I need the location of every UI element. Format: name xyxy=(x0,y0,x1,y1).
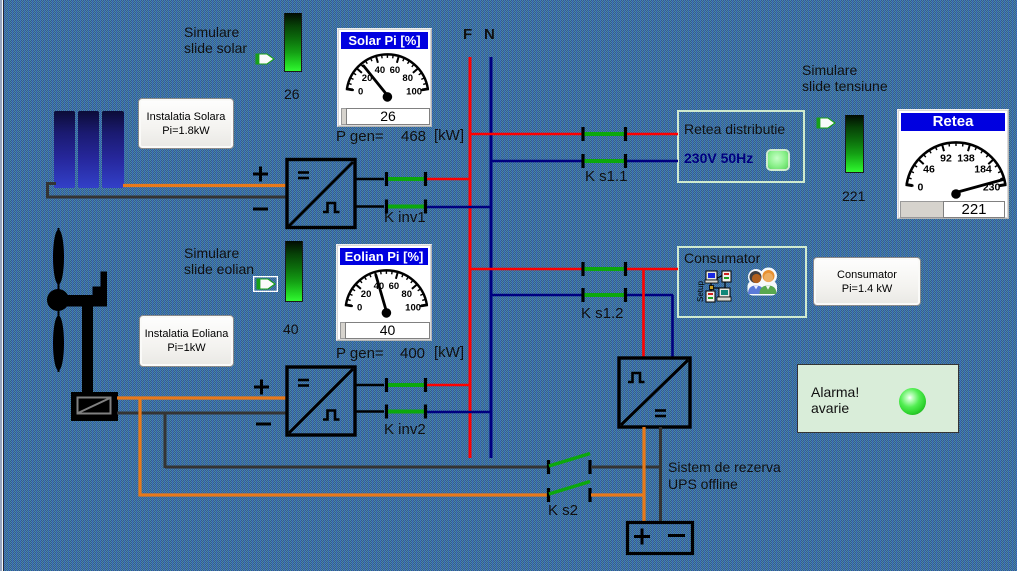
wire: K s1.2 to Consumator (red) xyxy=(627,268,678,271)
label: 230V 50Hz xyxy=(684,150,753,166)
solar panel array PV xyxy=(54,111,124,188)
LED sphere (alarma off/green) xyxy=(899,388,926,415)
value label 221 (tensiune slider) xyxy=(842,188,865,204)
node label F xyxy=(463,27,472,43)
label: Simulare slide solar xyxy=(184,24,247,56)
label: Alarma! avarie xyxy=(811,385,859,416)
wire: K inv2 to N bus (navy) xyxy=(427,411,492,414)
plus terminal label U1 xyxy=(253,167,268,182)
green box: Consumator xyxy=(677,246,807,318)
wire: N bus to K s1.1 (navy) xyxy=(491,160,582,163)
wind turbine WT xyxy=(47,228,118,421)
wire: U1 AC out bottom xyxy=(355,205,384,208)
wire: K s2 to battery node (orange) xyxy=(591,493,645,496)
switch label K s1.1 xyxy=(585,169,628,185)
svg-text:Setup: Setup xyxy=(696,281,705,302)
node label N xyxy=(484,27,495,43)
minus terminal label U2 xyxy=(256,423,271,426)
wire: PV plus (orange) to inverter U1 xyxy=(123,184,286,187)
switch K s1.2 pole F (closed) xyxy=(581,262,627,276)
value label 40 (eolian slider) xyxy=(283,321,299,337)
slider pointer (solar) xyxy=(255,53,275,65)
switch K inv1 pole N (closed) xyxy=(385,200,427,214)
wire: PV minus (grey) around bottom to inverter U1 xyxy=(46,182,286,198)
plus terminal label U2 xyxy=(254,380,269,395)
info box: Instalatia Eoliana Pi=1kW xyxy=(139,315,234,367)
alarm box: Alarma! avarie xyxy=(797,364,959,433)
label: Simulare slide tensiune xyxy=(802,62,888,94)
info box: Instalatia Solara Pi=1.8kW xyxy=(138,98,234,149)
switch K inv1 pole F (closed) xyxy=(385,172,427,186)
F phase bus (red vertical) xyxy=(469,57,472,458)
wire: U1 AC out top xyxy=(355,178,384,181)
wire: K inv1 to F bus (red) xyxy=(427,178,471,181)
slider bar (eolian) xyxy=(285,241,303,302)
slider bar (solar) xyxy=(284,13,302,72)
wire: F bus to K s1.2 (red) xyxy=(470,268,582,271)
label: Retea distributie xyxy=(684,121,785,137)
switch K s2 pole grey (open) xyxy=(547,454,592,475)
label: Consumator xyxy=(684,250,760,266)
icon: consumer people xyxy=(748,268,778,296)
inverter U2 (DC/AC) xyxy=(287,367,355,435)
wire: K s2 to battery node (grey) xyxy=(591,466,661,469)
inverter U1 (DC/AC) xyxy=(287,160,355,228)
gauge panel: Solar Pi [%] xyxy=(337,28,432,127)
wire: U2 AC out top xyxy=(355,384,384,387)
slider pointer (eolian, focused frame) xyxy=(253,276,278,292)
switch label K inv1 xyxy=(384,210,426,226)
LED indicator (retea on) xyxy=(768,151,788,169)
left window edge highlight xyxy=(0,0,4,571)
wire: F bus to K s1.1 (red) xyxy=(470,133,582,136)
gauge panel: Retea xyxy=(897,109,1009,219)
wire: K inv2 to F bus (red) xyxy=(427,384,471,387)
switch K inv2 pole N (closed) xyxy=(385,405,427,419)
N neutral bus (navy vertical) xyxy=(490,57,493,458)
slider pointer (tensiune) xyxy=(816,117,836,129)
switch K s1.1 pole N (closed) xyxy=(581,154,627,168)
wire: WT minus (grey) to inverter U2 xyxy=(117,412,286,415)
wire: orange branch down to UPS loop xyxy=(140,397,549,497)
wire: K s1.1 to Retea distributie (red) xyxy=(627,133,678,136)
icon: consumer network computers xyxy=(696,271,731,302)
green box: Retea distributie xyxy=(677,110,805,183)
P gen solar row xyxy=(336,129,384,145)
slider bar (tensiune) xyxy=(845,115,864,173)
gauge panel: Eolian Pi [%] xyxy=(336,244,432,341)
P gen eolian row xyxy=(336,346,384,362)
switch K s2 pole orange (open) xyxy=(547,482,592,503)
wire: N bus to K s1.2 (navy) xyxy=(491,294,582,297)
value label 26 (solar slider) xyxy=(284,86,300,102)
battery BT (UPS) xyxy=(628,523,693,554)
wire: grey branch down to UPS loop xyxy=(165,412,549,468)
wire: drop N to rectifier U3 (navy) xyxy=(671,295,674,358)
switch label K inv2 xyxy=(384,422,426,438)
minus terminal label U1 xyxy=(253,208,268,211)
label: Simulare slide eolian xyxy=(184,245,254,277)
switch K s1.1 pole F (closed) xyxy=(581,127,627,141)
label: Sistem de rezerva UPS offline xyxy=(668,459,781,493)
wire: drop F to rectifier U3 (red) xyxy=(642,269,645,358)
wire: U3 DC plus to battery (orange) xyxy=(642,427,645,522)
wire: U2 AC out bottom xyxy=(355,410,384,413)
info box: Consumator Pi=1.4 kW xyxy=(813,257,921,306)
wire: WT plus (orange) to inverter U2 xyxy=(117,396,286,399)
switch K inv2 pole F (closed) xyxy=(385,378,427,392)
switch label K s2 xyxy=(548,503,578,519)
wire: K inv1 to N bus (navy) xyxy=(427,206,492,209)
wire: U3 DC minus to battery (grey) xyxy=(659,427,662,522)
rectifier U3 (AC/DC) xyxy=(619,358,690,427)
switch K s1.2 pole N (closed) xyxy=(581,288,627,302)
switch label K s1.2 xyxy=(581,306,624,322)
wire: K s1.1 to Retea distributie (navy) xyxy=(627,160,678,163)
wire: K s1.2 to corner (navy) xyxy=(627,294,673,297)
